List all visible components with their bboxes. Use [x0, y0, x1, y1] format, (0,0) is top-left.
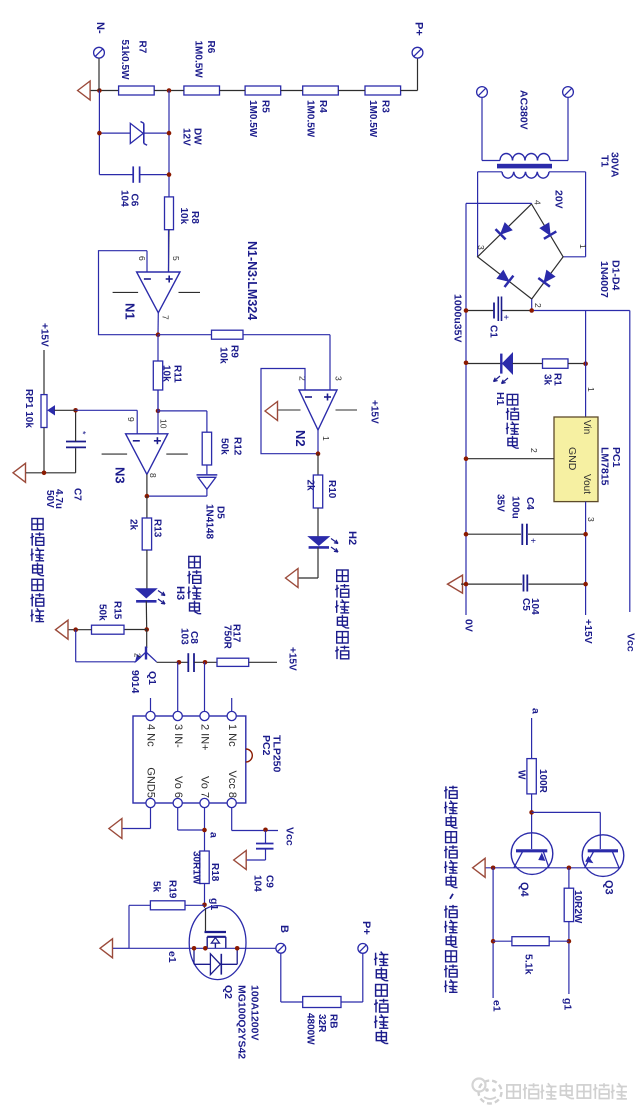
svg-text:R9: R9 — [228, 345, 239, 358]
svg-text:3 IN-: 3 IN- — [172, 724, 184, 748]
svg-text:*: * — [78, 431, 88, 435]
svg-text:2: 2 — [529, 448, 539, 453]
svg-text:10: 10 — [158, 419, 168, 429]
svg-text:104: 104 — [529, 598, 540, 615]
svg-text:Vin: Vin — [581, 420, 592, 434]
svg-text:100A1200V: 100A1200V — [248, 985, 260, 1040]
svg-text:103: 103 — [178, 628, 189, 645]
svg-text:4800W: 4800W — [304, 1013, 315, 1045]
svg-text:30R1W: 30R1W — [190, 851, 201, 885]
svg-text:e1: e1 — [490, 1000, 502, 1012]
svg-text:C1: C1 — [487, 325, 498, 338]
svg-text:2 IN+: 2 IN+ — [199, 724, 211, 751]
svg-text:50k: 50k — [218, 438, 229, 455]
svg-text:3: 3 — [476, 245, 486, 250]
svg-text:1: 1 — [321, 436, 331, 441]
svg-text:R12: R12 — [231, 437, 242, 456]
svg-text:35V: 35V — [494, 494, 505, 512]
svg-text:1 Nc: 1 Nc — [226, 724, 238, 747]
svg-text:RP1 10k: RP1 10k — [23, 389, 34, 428]
svg-text:H1: H1 — [494, 392, 506, 406]
svg-text:4 Nc: 4 Nc — [145, 724, 157, 747]
svg-text:AC380V: AC380V — [517, 90, 529, 130]
svg-text:9: 9 — [126, 417, 136, 422]
svg-text:8: 8 — [148, 473, 158, 478]
svg-text:Vout: Vout — [581, 474, 592, 494]
svg-text:Q3: Q3 — [603, 880, 615, 895]
svg-text:GND5: GND5 — [145, 767, 157, 798]
svg-text:2: 2 — [297, 376, 307, 381]
svg-text:1M0.5W: 1M0.5W — [192, 41, 203, 79]
svg-text:+15V: +15V — [368, 400, 379, 424]
svg-text:RB: RB — [327, 1014, 338, 1028]
svg-text:N2: N2 — [293, 430, 308, 447]
svg-text:750R: 750R — [221, 625, 232, 650]
svg-text:+: + — [501, 315, 511, 320]
svg-text:D5: D5 — [214, 506, 225, 519]
svg-text:g1: g1 — [208, 898, 220, 910]
svg-text:R10: R10 — [326, 480, 337, 499]
svg-text:Vcc 8: Vcc 8 — [226, 770, 238, 798]
svg-text:+15V: +15V — [286, 647, 297, 671]
svg-text:R5: R5 — [259, 100, 270, 113]
svg-text:1N4007: 1N4007 — [598, 261, 610, 298]
svg-text:+15V: +15V — [38, 323, 49, 347]
svg-text:C4: C4 — [524, 497, 535, 510]
svg-text:Vo 7: Vo 7 — [199, 776, 211, 798]
svg-text:R8: R8 — [189, 211, 200, 224]
svg-text:R7: R7 — [136, 41, 147, 54]
svg-text:R19: R19 — [166, 880, 177, 899]
svg-text:1: 1 — [578, 244, 588, 249]
svg-text:C9: C9 — [263, 875, 274, 888]
svg-text:2: 2 — [533, 303, 543, 308]
svg-text:5: 5 — [171, 256, 181, 261]
svg-text:50k: 50k — [96, 604, 107, 621]
svg-text:50V: 50V — [44, 490, 55, 508]
svg-text:MG100Q2YS42: MG100Q2YS42 — [235, 985, 247, 1059]
svg-text:N3: N3 — [113, 467, 128, 484]
svg-text:R18: R18 — [209, 863, 220, 882]
svg-text:2: 2 — [132, 653, 141, 658]
svg-text:R6: R6 — [205, 41, 216, 54]
svg-text:Q4: Q4 — [518, 882, 530, 898]
svg-text:P+: P+ — [360, 921, 372, 935]
svg-text:2k: 2k — [128, 519, 139, 531]
svg-text:0V: 0V — [462, 619, 474, 632]
svg-text:H3: H3 — [174, 586, 186, 600]
svg-text:6: 6 — [137, 256, 147, 261]
svg-text:R11: R11 — [171, 365, 182, 383]
svg-text:12V: 12V — [180, 128, 191, 146]
svg-text:1: 1 — [586, 387, 596, 392]
svg-text:PC1: PC1 — [610, 447, 622, 468]
svg-text:1M0.5W: 1M0.5W — [304, 100, 315, 138]
svg-text:7: 7 — [160, 315, 170, 320]
svg-text:N1: N1 — [123, 303, 138, 320]
svg-text:R13: R13 — [152, 519, 163, 538]
svg-text:e1: e1 — [166, 951, 178, 963]
svg-text:5k: 5k — [150, 881, 161, 893]
svg-text:C7: C7 — [71, 488, 82, 501]
svg-text:1M0.5W: 1M0.5W — [367, 100, 378, 138]
svg-text:10k: 10k — [178, 208, 189, 225]
svg-text:104: 104 — [118, 190, 129, 207]
svg-text:3: 3 — [586, 517, 596, 522]
svg-text:g1: g1 — [561, 998, 573, 1010]
svg-text:a: a — [207, 832, 219, 838]
svg-text:4: 4 — [532, 200, 542, 205]
svg-text:R4: R4 — [317, 100, 328, 113]
svg-text:Vcc: Vcc — [283, 827, 295, 846]
svg-text:GND: GND — [566, 447, 578, 471]
svg-text:W: W — [515, 770, 526, 780]
svg-text:Vcc: Vcc — [624, 633, 636, 652]
svg-text:9014: 9014 — [129, 670, 141, 694]
svg-text:20V: 20V — [553, 190, 565, 209]
svg-text:1N4148: 1N4148 — [203, 504, 214, 539]
svg-text:10k: 10k — [217, 347, 228, 364]
svg-text:Q1: Q1 — [146, 671, 158, 685]
svg-text:32R: 32R — [316, 1014, 327, 1033]
svg-text:30VA: 30VA — [608, 152, 620, 178]
svg-text:10R2W: 10R2W — [572, 890, 583, 924]
svg-text:51k0.5W: 51k0.5W — [119, 40, 130, 81]
svg-text:Q2: Q2 — [222, 985, 234, 999]
svg-text:+: + — [528, 538, 538, 543]
svg-text:DW: DW — [191, 128, 202, 145]
svg-text:N1-N3:LM324: N1-N3:LM324 — [245, 241, 259, 320]
svg-text:LM7815: LM7815 — [598, 447, 610, 486]
svg-text:a: a — [529, 708, 541, 714]
svg-text:Vo 6: Vo 6 — [172, 776, 184, 798]
svg-text:PC2: PC2 — [260, 735, 272, 756]
svg-text:R15: R15 — [111, 601, 122, 620]
svg-text:104: 104 — [251, 875, 262, 892]
svg-text:R3: R3 — [379, 100, 390, 113]
svg-text:P+: P+ — [413, 22, 425, 36]
svg-text:3: 3 — [333, 376, 343, 381]
svg-text:1M0.5W: 1M0.5W — [247, 100, 258, 138]
svg-text:D1-D4: D1-D4 — [609, 260, 621, 291]
svg-text:10k: 10k — [160, 365, 171, 382]
svg-text:100R: 100R — [537, 769, 548, 794]
svg-text:+15V: +15V — [582, 619, 594, 644]
svg-text:3k: 3k — [541, 374, 552, 386]
svg-text:2k: 2k — [304, 480, 315, 492]
svg-text:5.1k: 5.1k — [522, 954, 534, 975]
svg-text:1000u35V: 1000u35V — [451, 294, 463, 342]
svg-text:N-: N- — [94, 22, 106, 34]
svg-text:100u: 100u — [509, 496, 520, 519]
svg-text:B: B — [278, 925, 290, 933]
svg-text:TLP250: TLP250 — [271, 735, 283, 773]
svg-text:H2: H2 — [346, 531, 358, 545]
